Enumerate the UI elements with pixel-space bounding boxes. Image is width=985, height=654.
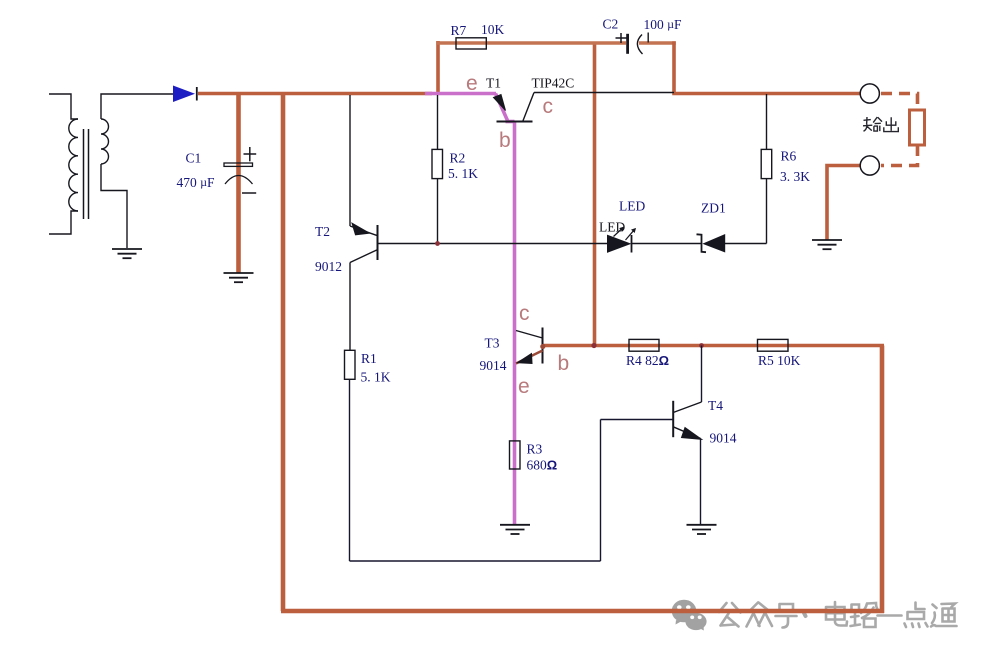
resistor R4 [629, 339, 659, 351]
svg-text:10K: 10K [481, 22, 505, 37]
点 [905, 603, 928, 628]
transformer TR primary bottom lead [49, 211, 78, 234]
zener ZD1 cathode bar with hooks [697, 234, 707, 252]
wire zener to R6 branch [725, 243, 767, 245]
LED light arrow 2 [626, 229, 636, 241]
svg-text:LED: LED [619, 199, 645, 214]
transistor T4 emitter arrow [682, 428, 702, 440]
svg-text:470 µF: 470 µF [177, 175, 216, 190]
wire R7 riser (orange) [436, 41, 440, 93]
wire T2 base lead to LED [378, 243, 608, 245]
output terminal 2 [860, 156, 879, 175]
wire top rail right of C2 (orange) [639, 41, 676, 44]
dot [804, 613, 806, 616]
resistor R5 [758, 339, 789, 351]
svg-text:b: b [499, 129, 511, 152]
通 [931, 604, 957, 627]
watermark wechat logo [672, 600, 707, 631]
transistor T3 emitter arrow [518, 354, 533, 364]
svg-text:680Ω: 680Ω [527, 458, 558, 473]
wire R4-R5 base rail (orange) [543, 344, 884, 347]
wire center vertical from top rail to T3 base (orange) [593, 43, 597, 345]
ground (C1) [224, 273, 254, 282]
wire bottom black rail [350, 560, 601, 562]
wire T2 emitter riser [349, 95, 351, 226]
LED light arrow 1 [614, 227, 624, 236]
svg-text:9014: 9014 [480, 358, 507, 373]
wire T1 emitter feed (magenta overlay) [425, 92, 496, 96]
电 [826, 602, 847, 626]
wire T1 collector to C2 corner (black) [534, 92, 674, 94]
svg-text:3. 3K: 3. 3K [780, 169, 810, 184]
resistor R1 [345, 350, 356, 379]
svg-text:C2: C2 [603, 17, 619, 32]
wire R6 top lead [766, 94, 768, 149]
transformer TR secondary winding [101, 119, 109, 164]
transistor T3 base bar [542, 328, 544, 364]
resistor R6 [761, 149, 772, 178]
wire R2 top lead [437, 95, 439, 149]
transistor T2 base bar [377, 225, 379, 260]
capacitor C1 plus sign [244, 147, 257, 161]
junction node (R4/T4 collector) [699, 343, 704, 348]
svg-text:T3: T3 [485, 336, 500, 351]
transistor T3 collector lead [516, 331, 543, 339]
transformer TR secondary top lead [101, 94, 173, 119]
众 [747, 603, 773, 627]
capacitor C1 top plate [224, 163, 253, 166]
wire R6 bottom lead [766, 179, 768, 244]
路 [851, 603, 880, 627]
svg-text:R6: R6 [781, 149, 797, 164]
ground (R3/T3 emitter) [500, 525, 530, 534]
svg-text:9012: 9012 [315, 259, 342, 274]
wire T1 base to T3 to R3 to ground (magenta vertical) [513, 122, 517, 525]
svg-text:C1: C1 [186, 151, 202, 166]
junction node (center rail / T3 base rail) [591, 343, 596, 348]
wire output return to ground (orange) [827, 166, 860, 241]
wire R1 bottom drop [349, 379, 351, 561]
svg-text:100 µF: 100 µF [644, 17, 683, 32]
capacitor C2 curved plate [637, 35, 642, 55]
load resistor box (orange outline) [910, 110, 925, 145]
wire top rail left of C2 (orange) [436, 41, 626, 44]
svg-text:T2: T2 [315, 224, 330, 239]
capacitor C2 right lead tick [647, 33, 649, 43]
LED triangle [608, 235, 631, 252]
svg-text:c: c [543, 95, 554, 118]
wire dashed load connections (orange) [881, 94, 918, 166]
svg-text:R5 10K: R5 10K [758, 353, 801, 368]
wire output rail (orange) [672, 92, 860, 96]
svg-text:TIP42C: TIP42C [532, 76, 575, 91]
wire T4 base lead [601, 419, 674, 421]
svg-text:5. 1K: 5. 1K [361, 370, 391, 385]
transistor T3 emitter lead (brown) [516, 351, 543, 364]
svg-text:T4: T4 [708, 398, 723, 413]
transformer TR primary top lead [49, 94, 78, 119]
svg-text:R1: R1 [361, 351, 377, 366]
svg-text:e: e [466, 72, 478, 95]
svg-text:R4 82Ω: R4 82Ω [626, 353, 669, 368]
wire left feedback riser (orange) [281, 92, 286, 611]
ground (output) [812, 240, 842, 249]
svg-text:R7: R7 [451, 23, 467, 38]
wire C1 riser (orange) [236, 92, 241, 273]
号 [776, 604, 797, 628]
output terminal 1 [860, 84, 879, 103]
svg-text:c: c [519, 302, 530, 325]
transistor T1 base bar [497, 121, 533, 123]
transistor T2 emitter lead [350, 226, 378, 236]
svg-text:T1: T1 [486, 76, 501, 91]
svg-text:e: e [518, 375, 530, 398]
svg-text:ZD1: ZD1 [701, 201, 726, 216]
LED cathode bar [631, 235, 633, 253]
ground (transformer secondary) [112, 249, 142, 258]
wire T2 collector to R1 [349, 263, 351, 351]
transistor T1 emitter arrow [494, 95, 506, 111]
wire main +V rail (orange) [198, 92, 432, 96]
capacitor C2 left plate [626, 34, 629, 54]
junction node (T3 base) [540, 344, 545, 349]
svg-text:9014: 9014 [710, 431, 737, 446]
transistor T4 base bar [672, 401, 674, 437]
wire T4 collector riser [701, 346, 703, 403]
公 [719, 603, 741, 613]
svg-text:R3: R3 [527, 442, 543, 457]
zener ZD1 triangle [704, 235, 725, 252]
transistor T2 emitter arrow [352, 223, 370, 235]
svg-text:LED: LED [599, 220, 625, 235]
wire C2 right riser (orange) [672, 41, 676, 93]
wire LED cathode to zener [632, 243, 702, 245]
capacitor C2 plus sign [616, 33, 627, 43]
resistor R3 [510, 441, 521, 469]
transformer TR secondary bottom lead [101, 164, 127, 248]
diode D1 cathode bar [196, 87, 198, 101]
wire T1 emitter diagonal (magenta) [496, 94, 508, 121]
transistor T1 collector lead [523, 93, 534, 122]
transformer TR primary winding [69, 119, 78, 211]
svg-text:5. 1K: 5. 1K [448, 166, 478, 181]
transistor T4 emitter lead [673, 427, 700, 439]
transistor T4 collector lead [673, 402, 701, 413]
wire T1 base jog (magenta) [506, 120, 515, 124]
junction node (R2/T2 base) [435, 241, 440, 246]
wire bottom rail (orange) [281, 609, 884, 614]
label 输出 (output, hand drawn) [863, 117, 898, 132]
一 [878, 614, 902, 617]
resistor R7 [456, 38, 486, 49]
wire right riser (orange) [880, 346, 885, 614]
capacitor C1 minus sign [242, 192, 256, 194]
transformer TR core [84, 129, 89, 219]
watermark text 公众号·电路一点通 (hand drawn) [719, 602, 957, 628]
transistor T2 collector lead [350, 250, 378, 263]
wire T4 emitter drop [700, 439, 702, 525]
wire R2 bottom lead [437, 179, 439, 244]
svg-text:R2: R2 [450, 151, 466, 166]
svg-text:b: b [558, 352, 570, 375]
capacitor C1 curved plate [225, 176, 253, 185]
resistor R2 [432, 149, 443, 178]
wire T4 base riser [600, 420, 602, 562]
ground (T4 emitter) [687, 525, 717, 534]
diode D1 (rectifier) [173, 86, 195, 103]
